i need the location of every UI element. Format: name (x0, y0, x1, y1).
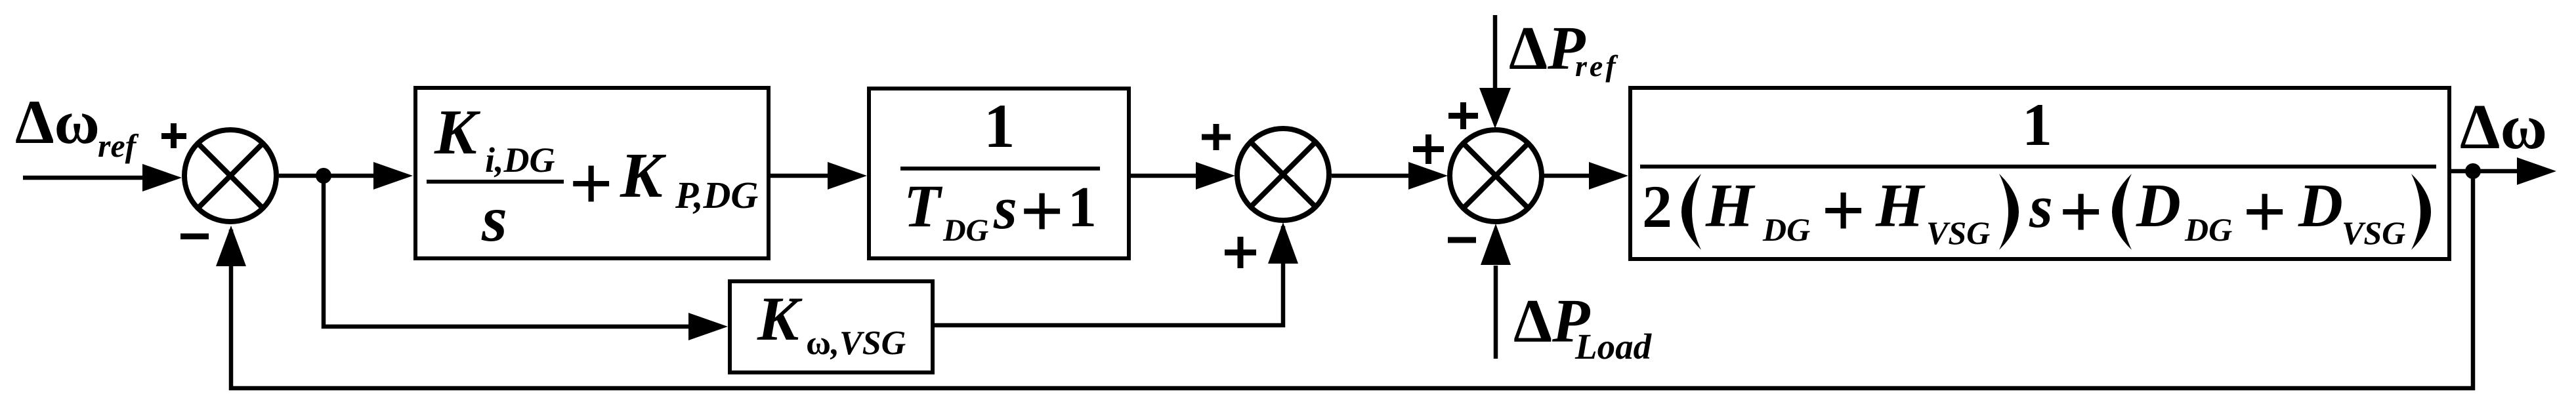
svg-text:VSG: VSG (2342, 214, 2405, 251)
svg-text:K: K (620, 140, 667, 210)
svg-text:+: + (569, 140, 613, 226)
svg-text:s: s (481, 182, 507, 255)
svg-text:+: + (2243, 169, 2287, 254)
svg-text:T: T (904, 172, 943, 239)
svg-text:2: 2 (1642, 173, 1672, 240)
svg-text:Δω: Δω (2460, 92, 2547, 163)
svg-text:D: D (2298, 172, 2343, 240)
svg-text:1: 1 (1068, 176, 1097, 239)
svg-text:K: K (757, 284, 803, 353)
svg-text:+: + (1020, 168, 1064, 254)
svg-text:ref: ref (98, 127, 139, 164)
svg-text:i,DG: i,DG (485, 140, 555, 180)
svg-text:ω,VSG: ω,VSG (806, 325, 906, 362)
svg-text:H: H (1705, 172, 1756, 240)
svg-text:D: D (2136, 172, 2181, 240)
svg-text:s: s (2029, 173, 2053, 240)
svg-text:H: H (1875, 172, 1926, 240)
svg-text:K: K (434, 97, 481, 167)
svg-text:Δω: Δω (15, 87, 100, 157)
svg-text:+: + (1821, 167, 1865, 253)
svg-text:DG: DG (2184, 211, 2232, 248)
svg-text:ref: ref (1575, 49, 1618, 83)
svg-text:s: s (993, 174, 1017, 241)
svg-text:1: 1 (984, 91, 1015, 161)
svg-text:DG: DG (942, 213, 989, 248)
svg-text:DG: DG (1762, 211, 1810, 248)
svg-text:Load: Load (1574, 327, 1653, 367)
svg-text:VSG: VSG (1926, 214, 1990, 251)
svg-text:+: + (2059, 169, 2103, 254)
svg-text:P,DG: P,DG (675, 174, 758, 216)
svg-text:1: 1 (2022, 91, 2052, 158)
